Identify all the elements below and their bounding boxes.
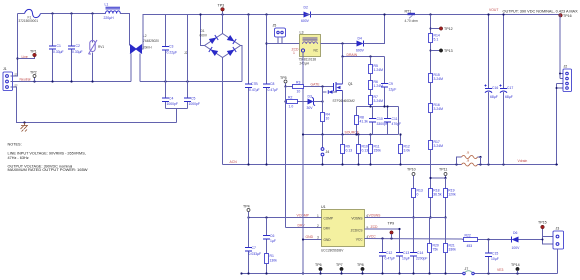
svg-text:TP11: TP11 [439, 168, 447, 172]
svg-text:47Hz - 63Hz: 47Hz - 63Hz [8, 156, 29, 160]
wire L3 output to D4 [321, 43, 357, 45]
svg-text:J7: J7 [465, 267, 469, 271]
svg-text:C8: C8 [270, 82, 274, 86]
wire neutral into choke [130, 54, 132, 82]
svg-text:R1: R1 [270, 254, 274, 258]
svg-text:TP5: TP5 [280, 76, 287, 80]
jumper J5 [265, 24, 299, 45]
capacitor C8 [266, 15, 268, 165]
svg-text:3.0k: 3.0k [404, 149, 411, 153]
svg-text:600V: 600V [200, 33, 208, 37]
resistor R7 [369, 96, 373, 105]
svg-text:3300pF: 3300pF [377, 122, 389, 126]
svg-text:VE3: VE3 [497, 268, 504, 272]
svg-text:TP13: TP13 [444, 49, 453, 53]
svg-text:37215000001: 37215000001 [19, 19, 39, 23]
svg-text:COMP: COMP [324, 217, 334, 221]
capacitor C3 [165, 15, 167, 82]
jumper J4 [322, 135, 324, 165]
capacitor C5 [187, 15, 189, 109]
svg-text:TP14: TP14 [511, 263, 520, 267]
wire GND [303, 239, 322, 241]
capacitor C4 [165, 82, 167, 109]
svg-text:TP4: TP4 [243, 205, 250, 209]
test point TP1 [33, 53, 37, 57]
resistor R15 [429, 74, 433, 83]
test point TP2 [34, 78, 36, 82]
wire DRV [286, 227, 322, 229]
connector J3 [542, 227, 564, 274]
svg-text:R2: R2 [288, 96, 292, 100]
svg-text:0.33µF: 0.33µF [53, 50, 64, 54]
svg-text:36.5k: 36.5k [433, 193, 442, 197]
resistor R1 [265, 254, 269, 264]
capacitor C1 [52, 14, 54, 82]
svg-text:120k: 120k [448, 193, 456, 197]
svg-text:41.3k: 41.3k [360, 120, 369, 124]
svg-text:0.033µF: 0.033µF [249, 252, 262, 256]
resistor R12 [400, 135, 402, 165]
svg-text:0.47µF: 0.47µF [249, 88, 260, 92]
wire ZCD [365, 229, 400, 253]
capacitor C11 [387, 107, 389, 135]
resistor R22 [462, 238, 512, 241]
resistor R6 [369, 81, 373, 90]
svg-text:3.24M: 3.24M [434, 107, 444, 111]
svg-text:150k: 150k [374, 149, 382, 153]
svg-text:TP3: TP3 [218, 4, 225, 8]
svg-text:C1: C1 [57, 44, 61, 48]
svg-text:GATE: GATE [311, 83, 321, 87]
svg-text:C4: C4 [169, 97, 173, 101]
wire L3 aux down [302, 52, 304, 135]
svg-text:SOURCE: SOURCE [345, 131, 360, 135]
svg-text:VCC: VCC [356, 238, 363, 242]
node junctions top rail [51, 12, 53, 14]
wire bridge right to neutral [241, 46, 243, 82]
resistor R20 [429, 218, 431, 274]
capacitor C14 [413, 218, 415, 274]
svg-text:600V: 600V [301, 19, 310, 23]
svg-text:130k: 130k [270, 259, 278, 263]
wire COMP [249, 217, 322, 219]
svg-text:OUTPUT: 390 VDC NOMINAL, 0.423: OUTPUT: 390 VDC NOMINAL, 0.423 A MAX [503, 10, 579, 14]
svg-text:10: 10 [326, 117, 330, 121]
capacitor C7B [248, 15, 250, 165]
svg-text:Neutral: Neutral [20, 78, 31, 82]
svg-text:1µF: 1µF [270, 239, 276, 243]
svg-text:Vdrain: Vdrain [518, 159, 528, 163]
svg-text:12µF: 12µF [389, 88, 397, 92]
svg-text:5.1: 5.1 [434, 38, 439, 42]
svg-text:3.24M: 3.24M [434, 144, 444, 148]
resistor R21 [445, 218, 447, 274]
wire live vertical from J1 pin1 up to fuse [11, 14, 18, 77]
svg-text:STP26N60DM2: STP26N60DM2 [333, 99, 356, 103]
svg-text:D4: D4 [358, 37, 362, 41]
svg-text:100V: 100V [512, 246, 521, 250]
resistor R18 [429, 189, 433, 198]
svg-text:1: 1 [293, 51, 295, 55]
svg-text:C14: C14 [417, 251, 423, 255]
svg-text:75k: 75k [433, 248, 439, 252]
connector J2 [555, 15, 571, 166]
transistor Q1 [323, 57, 356, 135]
diode D5 gate loop [323, 87, 337, 93]
svg-text:0.33µF: 0.33µF [72, 50, 83, 54]
zener D3 [308, 99, 314, 105]
capacitor C6 [266, 218, 268, 254]
op-amp U1 controller [321, 205, 365, 253]
svg-text:68µF: 68µF [505, 95, 513, 99]
svg-text:220µH: 220µH [104, 16, 115, 20]
test point TP16 [559, 14, 563, 18]
wire from L1 down to choke [120, 14, 130, 46]
svg-text:0.22µF: 0.22µF [167, 51, 178, 55]
test point TP3 [222, 11, 224, 15]
svg-text:D3: D3 [308, 95, 312, 99]
svg-text:DRV: DRV [298, 224, 306, 228]
diode D4 [356, 37, 365, 53]
wire ACN rail [223, 164, 462, 166]
common-mode choke L2 [130, 34, 159, 54]
node live TP1 stub [16, 57, 18, 59]
svg-text:NC: NC [314, 49, 319, 53]
resistor R8 [355, 116, 359, 125]
svg-text:R22: R22 [465, 234, 471, 238]
capacitor C7 [248, 218, 250, 274]
svg-text:470pF: 470pF [392, 122, 402, 126]
fuse F1 [18, 13, 25, 15]
svg-text:C7B: C7B [251, 82, 258, 86]
svg-text:TP12: TP12 [444, 27, 453, 31]
svg-text:C17: C17 [507, 86, 513, 90]
svg-text:LINE INPUT VOLTAGE: 90VRMS - 2: LINE INPUT VOLTAGE: 90VRMS - 265VRMS, [8, 152, 86, 156]
svg-text:600V: 600V [356, 49, 365, 53]
svg-text:C7: C7 [252, 246, 256, 250]
capacitor C2 [71, 14, 73, 82]
svg-text:J4: J4 [326, 150, 330, 154]
capacitor C9 [384, 57, 386, 107]
svg-text:C5: C5 [191, 97, 195, 101]
svg-text:J2: J2 [564, 65, 568, 69]
capacitor C15 [488, 240, 490, 274]
svg-text:DRV: DRV [324, 227, 332, 231]
svg-text:MAXIMUM RATED OUTPUT POWER: 16: MAXIMUM RATED OUTPUT POWER: 165W [8, 167, 88, 172]
thermistor RT1 [405, 10, 419, 24]
resistor R13 [412, 189, 416, 198]
resistor R19 [445, 178, 447, 218]
svg-text:Live: Live [22, 55, 28, 59]
test point TP12 [430, 28, 432, 30]
svg-text:453: 453 [467, 244, 473, 248]
svg-text:1.0: 1.0 [289, 105, 294, 109]
resistor R14 chain [430, 15, 432, 34]
svg-text:1000pF: 1000pF [189, 102, 201, 106]
wire rail to bridge left [201, 15, 205, 46]
svg-text:30V: 30V [307, 106, 314, 110]
svg-text:D6: D6 [513, 231, 517, 235]
svg-text:L2: L2 [143, 34, 147, 38]
wire VCC row [365, 238, 462, 241]
resistor R5 divider [370, 57, 372, 65]
svg-text:20mH: 20mH [143, 46, 152, 50]
diode D6 [511, 237, 513, 243]
svg-text:C9: C9 [389, 82, 393, 86]
wire VOSNS [365, 217, 446, 219]
resistor R3 [286, 86, 323, 88]
svg-text:C10: C10 [377, 117, 383, 121]
svg-text:R3: R3 [296, 81, 300, 85]
bridge rectifier D1 [200, 15, 241, 58]
svg-text:TP8: TP8 [357, 263, 364, 267]
svg-text:C3: C3 [169, 45, 173, 49]
svg-text:NOTES:: NOTES: [8, 143, 22, 147]
svg-text:10: 10 [297, 90, 301, 94]
wire Y-cap return to earth [166, 109, 188, 123]
varistor RV1 [92, 14, 94, 82]
svg-text:U1: U1 [321, 205, 326, 209]
svg-text:0.13: 0.13 [362, 149, 369, 153]
notes text [8, 143, 88, 173]
capacitor C16 [488, 15, 490, 165]
svg-text:VCC: VCC [369, 235, 377, 239]
network R8 C10 C11 [357, 106, 399, 108]
ground earth symbol [21, 123, 29, 132]
svg-text:Q1: Q1 [348, 82, 353, 86]
wire choke to second rail [142, 15, 201, 50]
capacitor C10 [372, 107, 374, 135]
svg-text:C2: C2 [76, 44, 80, 48]
svg-text:C6: C6 [270, 234, 274, 238]
connector J1 [3, 67, 18, 91]
svg-text:1000pF: 1000pF [167, 102, 179, 106]
jumper J7 [463, 272, 465, 274]
wire neutral rail [11, 81, 132, 83]
svg-text:TP1: TP1 [30, 50, 37, 54]
svg-text:VOSNS: VOSNS [369, 214, 382, 218]
svg-text:3.24M: 3.24M [374, 99, 384, 103]
resistor R16 [429, 104, 433, 113]
svg-text:TP7: TP7 [336, 263, 343, 267]
svg-text:0.47µF: 0.47µF [385, 257, 396, 261]
svg-text:744825020: 744825020 [143, 39, 159, 43]
svg-text:TP9: TP9 [388, 222, 395, 226]
resistor R2 [286, 101, 308, 103]
wire ground rail [241, 273, 558, 275]
svg-text:10µF: 10µF [491, 257, 499, 261]
test point TP13 [430, 50, 432, 52]
svg-text:10µF: 10µF [402, 257, 410, 261]
shunt R10 [358, 135, 360, 165]
svg-text:J5: J5 [273, 24, 277, 28]
svg-text:GND: GND [324, 238, 332, 242]
svg-text:0.47µF: 0.47µF [268, 88, 279, 92]
svg-text:0.13: 0.13 [346, 149, 353, 153]
svg-text:UCC28056DBV: UCC28056DBV [321, 249, 344, 253]
svg-text:C13: C13 [403, 251, 409, 255]
svg-text:3: 3 [317, 236, 319, 240]
capacitor C13 [399, 256, 401, 274]
svg-text:2200pF: 2200pF [416, 257, 428, 261]
svg-text:L3: L3 [300, 31, 304, 35]
wire bridge bottom to ACN rail [222, 58, 224, 165]
svg-text:0: 0 [417, 193, 419, 197]
svg-text:VOUT: VOUT [489, 8, 498, 12]
resistor R11 [370, 135, 372, 165]
svg-text:TP6: TP6 [315, 263, 322, 267]
svg-text:240µH: 240µH [300, 61, 310, 65]
svg-text:DRAIN: DRAIN [347, 53, 358, 57]
inductor L3 PFC boost [292, 31, 321, 66]
svg-text:ZCD/CS: ZCD/CS [351, 229, 363, 233]
svg-text:VOSNS: VOSNS [351, 217, 362, 221]
svg-text:J3: J3 [556, 227, 560, 231]
svg-text:C12: C12 [386, 251, 392, 255]
svg-text:330k: 330k [449, 248, 457, 252]
svg-text:68µF: 68µF [490, 95, 498, 99]
svg-text:D2: D2 [304, 6, 308, 10]
svg-text:TP15: TP15 [538, 221, 547, 225]
capacitor C17 [503, 15, 505, 165]
svg-text:GND: GND [306, 235, 314, 239]
svg-text:C11: C11 [392, 117, 398, 121]
svg-text:TP2: TP2 [30, 71, 37, 75]
svg-text:3.24M: 3.24M [434, 77, 444, 81]
svg-text:1.24M: 1.24M [374, 68, 384, 72]
svg-text:ACN: ACN [230, 160, 238, 164]
svg-text:L1: L1 [105, 3, 109, 7]
svg-text:TP16: TP16 [563, 14, 572, 18]
svg-text:RV1: RV1 [98, 45, 104, 49]
wire top rail over bridge [201, 14, 306, 16]
shunt pair J6 [457, 151, 559, 167]
wire source row [303, 134, 399, 136]
resistor R4 [322, 87, 324, 113]
diode D2 [301, 6, 311, 24]
svg-text:J1: J1 [3, 67, 7, 71]
shunt R9 [342, 135, 344, 165]
svg-text:C15: C15 [492, 252, 498, 256]
wire drain row [343, 44, 385, 57]
svg-text:TP10: TP10 [407, 168, 416, 172]
wire earth bottom [11, 87, 177, 123]
svg-text:C16: C16 [492, 86, 498, 90]
svg-text:ZCD: ZCD [371, 225, 379, 229]
resistor R17 [429, 141, 433, 150]
capacitor C12 [382, 239, 384, 274]
svg-text:4.70 ohm: 4.70 ohm [405, 19, 419, 23]
